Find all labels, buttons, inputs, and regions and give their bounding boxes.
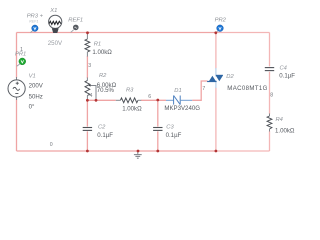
svg-text:1.00kΩ: 1.00kΩ: [122, 106, 142, 113]
wire top: [17, 32, 216, 34]
svg-text:0.1µF: 0.1µF: [279, 73, 295, 80]
wire R3 to node 6: [141, 99, 166, 101]
junction node 6: [156, 99, 159, 102]
lamp X1: [49, 15, 62, 33]
wire triac branch lower: [215, 88, 217, 152]
wire R2 bottom to R3 row: [87, 99, 115, 101]
svg-text:C3: C3: [166, 125, 174, 131]
svg-text:7: 7: [202, 86, 205, 92]
svg-text:R2: R2: [99, 73, 107, 79]
wire left lower: [16, 99, 18, 152]
svg-text:0.1µF: 0.1µF: [97, 132, 113, 139]
svg-text:X1: X1: [49, 8, 57, 14]
svg-text:PR2: PR2: [215, 18, 227, 24]
probe PR3: [30, 25, 38, 33]
wire C2 branch lower: [86, 131, 88, 151]
capacitor C2: [83, 128, 92, 131]
svg-text:1.00kΩ: 1.00kΩ: [275, 128, 295, 135]
svg-text:MAC08MT1G: MAC08MT1G: [227, 85, 267, 92]
svg-text:MKP3V240G: MKP3V240G: [164, 105, 200, 112]
wire bottom: [17, 150, 216, 152]
svg-text:0: 0: [50, 142, 53, 148]
svg-text:REF1: REF1: [29, 19, 38, 23]
svg-text:C4: C4: [280, 65, 287, 71]
svg-text:8: 8: [270, 93, 273, 99]
junction C3 bottom: [156, 150, 159, 153]
svg-text:6: 6: [148, 94, 151, 100]
junction R2 bottom: [86, 99, 89, 102]
wire right upper: [269, 33, 271, 67]
junction triac bottom: [215, 150, 218, 153]
wire right mid: [269, 72, 271, 114]
junction C2 bottom: [86, 150, 89, 153]
wire D1 to gate corner: [192, 81, 207, 100]
probe REF1: [71, 25, 79, 33]
svg-text:D2: D2: [226, 74, 234, 80]
ground: [134, 151, 142, 158]
capacitor C3: [153, 128, 162, 131]
svg-text:200V: 200V: [29, 83, 44, 90]
diac D1: [166, 96, 192, 105]
resistor R4: [267, 114, 272, 132]
svg-text:C2: C2: [98, 125, 106, 131]
wire triac branch upper: [215, 33, 217, 69]
svg-text:250V: 250V: [48, 40, 63, 47]
wire C3 branch upper: [157, 100, 159, 126]
probe PR1: [17, 58, 26, 66]
wire C2 branch upper: [86, 100, 88, 126]
svg-text:R4: R4: [276, 117, 283, 123]
svg-text:D1: D1: [174, 88, 181, 94]
junction top R branch: [86, 31, 89, 34]
wire left upper: [16, 33, 18, 79]
triac D2: [207, 68, 223, 88]
wire right lower: [269, 131, 271, 151]
junction top triac branch: [214, 31, 217, 34]
svg-text:1: 1: [20, 47, 23, 53]
svg-text:1.00kΩ: 1.00kΩ: [92, 49, 112, 56]
capacitor C4: [265, 68, 274, 71]
resistor R1: [85, 33, 90, 57]
probe PR2: [216, 25, 223, 33]
svg-text:0°: 0°: [29, 104, 35, 111]
svg-text:V1: V1: [29, 73, 36, 79]
svg-text:0.1µF: 0.1µF: [166, 132, 182, 139]
svg-text:3: 3: [88, 63, 91, 69]
svg-text:R3: R3: [126, 87, 134, 93]
svg-text:4: 4: [90, 93, 93, 99]
wire C3 branch lower: [157, 131, 159, 151]
svg-text:REF1: REF1: [68, 17, 83, 23]
svg-text:70.5%: 70.5%: [97, 87, 115, 94]
svg-text:R1: R1: [94, 41, 101, 47]
resistor R3: [116, 98, 141, 103]
voltage source V1: [8, 77, 25, 100]
svg-text:50Hz: 50Hz: [29, 93, 43, 100]
junction wiper: [95, 99, 98, 102]
wire branch R1-R2 upper: [86, 56, 88, 78]
junction ground: [137, 150, 140, 153]
potentiometer R2: [85, 78, 96, 101]
